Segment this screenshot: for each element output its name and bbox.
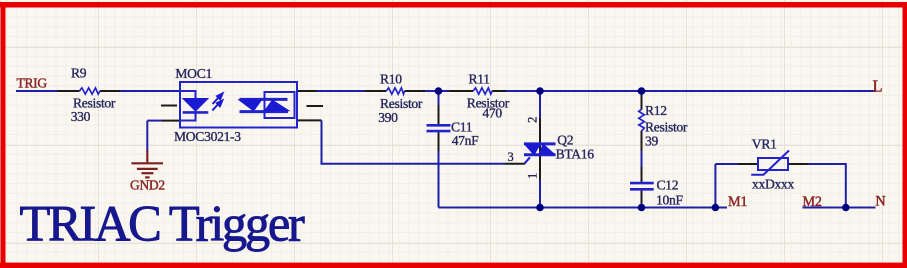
svg-text:TRIG: TRIG — [17, 76, 48, 91]
svg-text:GND2: GND2 — [130, 178, 165, 193]
svg-text:TRIAC Trigger: TRIAC Trigger — [20, 196, 305, 252]
svg-text:M1: M1 — [728, 194, 747, 210]
svg-text:L: L — [873, 77, 883, 96]
svg-text:C12: C12 — [657, 178, 679, 193]
svg-text:R11: R11 — [469, 72, 490, 87]
svg-text:R9: R9 — [71, 66, 87, 81]
svg-text:10nF: 10nF — [656, 193, 683, 208]
svg-text:3: 3 — [508, 150, 514, 164]
svg-text:BTA16: BTA16 — [556, 147, 595, 162]
svg-text:R12: R12 — [645, 103, 667, 118]
svg-text:39: 39 — [645, 133, 658, 148]
svg-text:330: 330 — [71, 109, 91, 124]
svg-text:MOC3021-3: MOC3021-3 — [174, 129, 241, 144]
svg-text:N: N — [875, 193, 885, 209]
svg-text:R10: R10 — [380, 72, 402, 87]
svg-text:M2: M2 — [803, 194, 822, 210]
svg-text:1: 1 — [525, 173, 539, 179]
svg-text:xxDxxx: xxDxxx — [752, 177, 795, 192]
svg-text:MOC1: MOC1 — [175, 66, 212, 81]
svg-text:VR1: VR1 — [752, 136, 777, 151]
svg-text:Resistor: Resistor — [380, 96, 423, 111]
svg-text:2: 2 — [525, 117, 539, 123]
svg-text:470: 470 — [482, 105, 502, 120]
svg-text:47nF: 47nF — [452, 133, 479, 148]
svg-text:Q2: Q2 — [557, 133, 574, 148]
svg-text:390: 390 — [378, 110, 398, 125]
svg-text:Resistor: Resistor — [645, 120, 688, 135]
